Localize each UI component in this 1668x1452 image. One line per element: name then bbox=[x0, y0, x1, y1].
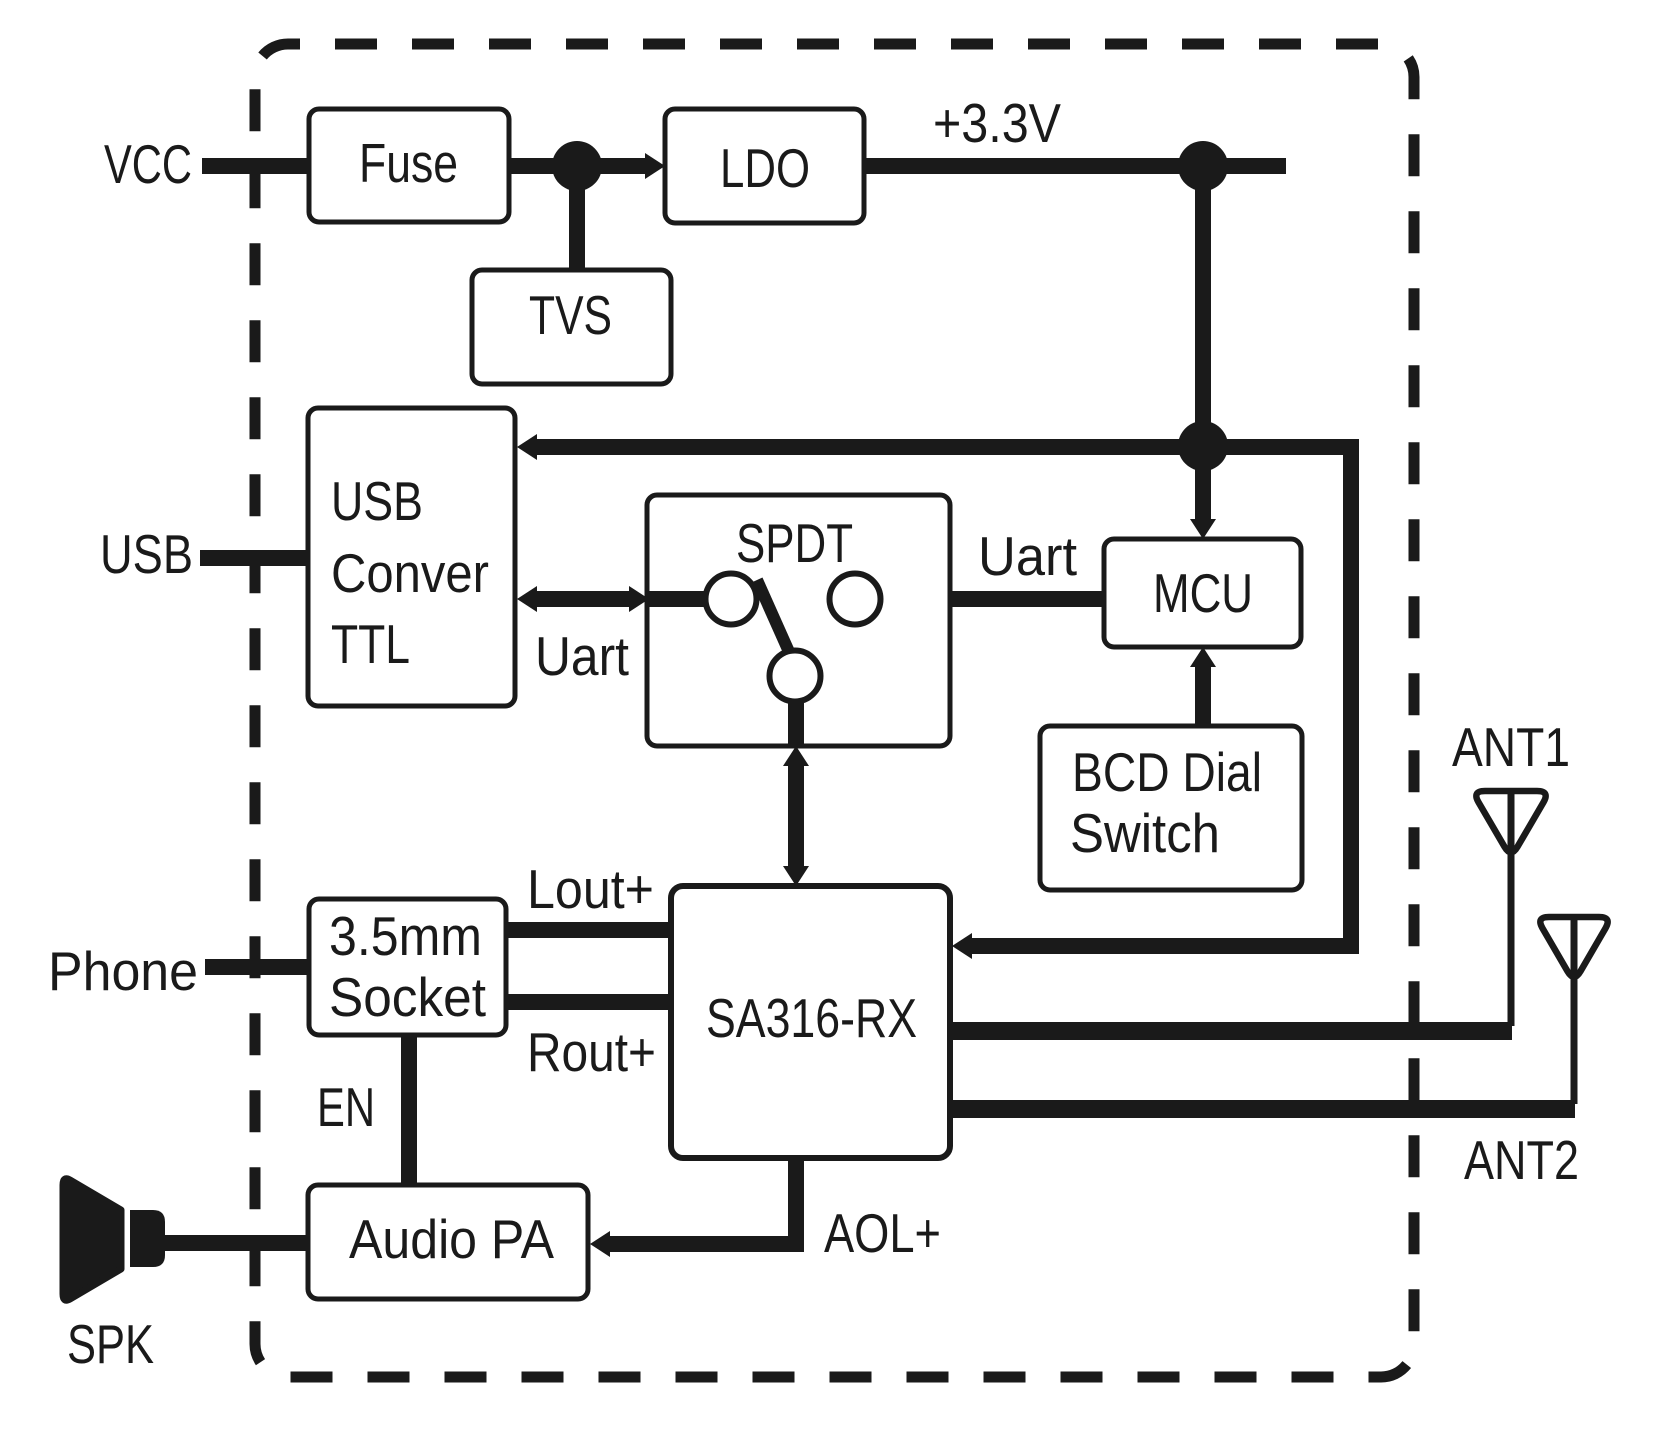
svg-text:Switch: Switch bbox=[1070, 802, 1220, 864]
svg-text:TVS: TVS bbox=[529, 284, 612, 346]
svg-text:SPDT: SPDT bbox=[736, 512, 853, 574]
svg-text:USB: USB bbox=[100, 523, 193, 585]
junction node at Fuse output bbox=[552, 141, 602, 191]
svg-text:Uart: Uart bbox=[978, 525, 1077, 587]
block TVS bbox=[472, 270, 671, 384]
antenna ANT1 bbox=[1476, 791, 1545, 1026]
wire +3.3V rail from LDO bbox=[862, 158, 1286, 174]
wire junction to TVS bbox=[569, 166, 585, 272]
svg-text:ANT2: ANT2 bbox=[1464, 1129, 1579, 1191]
svg-text:SPK: SPK bbox=[67, 1313, 154, 1375]
label Uart right bbox=[978, 525, 1077, 587]
wire SPDT to SA316-RX double arrow bbox=[783, 746, 809, 886]
wire right branch down to SA316-RX with arrow bbox=[952, 439, 1359, 959]
block SPDT switch bbox=[647, 495, 950, 746]
svg-text:Audio PA: Audio PA bbox=[349, 1208, 554, 1270]
label VCC bbox=[104, 133, 192, 195]
label +3.3V bbox=[933, 92, 1061, 154]
svg-text:Uart: Uart bbox=[535, 625, 629, 687]
wire ANT2 bbox=[950, 1100, 1575, 1118]
svg-text:LDO: LDO bbox=[720, 137, 810, 199]
junction node on +3.3V rail bbox=[1178, 141, 1228, 191]
svg-text:EN: EN bbox=[317, 1076, 375, 1138]
wire Phone input bbox=[205, 959, 309, 975]
wire Rout+ bbox=[504, 994, 672, 1010]
block LDO bbox=[665, 109, 864, 223]
svg-text:Phone: Phone bbox=[48, 940, 198, 1002]
label Uart left bbox=[535, 625, 629, 687]
wire +3.3V vertical drop bbox=[1195, 166, 1211, 447]
wire Fuse to junction to LDO bbox=[505, 153, 665, 179]
wire power to MCU with arrow bbox=[1190, 447, 1216, 539]
block SA316-RX bbox=[671, 886, 950, 1158]
wire Uart SPDT to MCU bbox=[878, 591, 1106, 607]
speaker SPK symbol bbox=[63, 1179, 165, 1300]
label AOL+ bbox=[824, 1202, 941, 1264]
label Rout+ bbox=[527, 1021, 656, 1083]
svg-text:AOL+: AOL+ bbox=[824, 1202, 941, 1264]
antenna ANT2 bbox=[1540, 917, 1607, 1104]
junction node at power branch bbox=[1178, 421, 1228, 471]
svg-text:VCC: VCC bbox=[104, 133, 192, 195]
wire power feedback to USB Conver TTL with arrow bbox=[517, 434, 1357, 460]
module boundary dashed border bbox=[255, 44, 1414, 1377]
label USB bbox=[100, 523, 193, 585]
svg-text:TTL: TTL bbox=[331, 613, 410, 675]
label ANT1 bbox=[1452, 716, 1570, 778]
label Phone bbox=[48, 940, 198, 1002]
label EN bbox=[317, 1076, 375, 1138]
block BCD Dial Switch bbox=[1040, 726, 1302, 890]
wire BCD Dial Switch to MCU with arrow bbox=[1190, 647, 1216, 729]
wire EN bbox=[401, 1033, 417, 1186]
svg-text:USB: USB bbox=[331, 470, 423, 532]
label SPK bbox=[67, 1313, 154, 1375]
block Fuse bbox=[309, 109, 509, 222]
wire speaker to Audio PA bbox=[163, 1235, 309, 1251]
svg-text:+3.3V: +3.3V bbox=[933, 92, 1061, 154]
block 3.5mm Socket bbox=[309, 899, 506, 1035]
svg-text:3.5mm: 3.5mm bbox=[329, 905, 482, 967]
svg-text:Socket: Socket bbox=[329, 966, 486, 1028]
block MCU bbox=[1104, 539, 1301, 647]
svg-text:Lout+: Lout+ bbox=[527, 858, 654, 920]
wire Uart double arrow USB Conver TTL to SPDT bbox=[517, 586, 649, 612]
svg-text:Fuse: Fuse bbox=[359, 132, 458, 194]
svg-text:Conver: Conver bbox=[331, 542, 489, 604]
svg-text:Rout+: Rout+ bbox=[527, 1021, 656, 1083]
label Lout+ bbox=[527, 858, 654, 920]
wire ANT1 bbox=[950, 1022, 1512, 1040]
wire USB input bbox=[200, 550, 308, 566]
svg-text:BCD Dial: BCD Dial bbox=[1072, 741, 1262, 803]
wire VCC input bbox=[202, 158, 309, 174]
svg-text:SA316-RX: SA316-RX bbox=[706, 987, 917, 1049]
block USB Conver TTL bbox=[308, 408, 515, 706]
svg-text:MCU: MCU bbox=[1153, 562, 1253, 624]
block Audio PA bbox=[308, 1185, 588, 1299]
wire Lout+ bbox=[504, 922, 672, 938]
wire AOL+ to Audio PA with arrow bbox=[590, 1156, 804, 1257]
svg-text:ANT1: ANT1 bbox=[1452, 716, 1570, 778]
label ANT2 bbox=[1464, 1129, 1579, 1191]
